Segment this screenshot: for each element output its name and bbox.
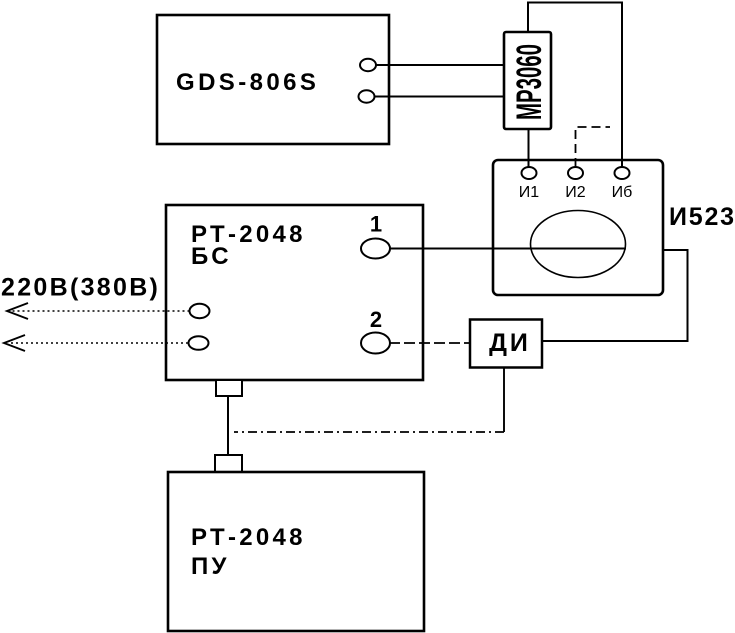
meter I523 box [493, 160, 663, 295]
current sensor DI box [470, 320, 542, 368]
svg-text:ПУ: ПУ [191, 553, 230, 580]
wire GDS terminal 1 to MP3060 [376, 64, 504, 66]
svg-text:МР3060: МР3060 [510, 44, 549, 120]
wire terminal 2 to DI [389, 342, 470, 344]
connector tab on PU top [215, 455, 242, 472]
mains wire a [12, 310, 190, 312]
wire MP3060 bottom to terminal I1 of I523 [528, 129, 530, 167]
wire I523 right side to DI [543, 250, 688, 341]
GDS-806S terminal 2 [359, 90, 375, 102]
svg-text:И1: И1 [519, 184, 540, 201]
terminal 2 of BS [361, 333, 390, 354]
svg-text:220В(380В): 220В(380В) [1, 274, 160, 302]
shunt MP3060 box [504, 32, 551, 129]
control unit PT-2048 PU box [168, 472, 424, 631]
svg-text:И2: И2 [565, 184, 586, 201]
mains terminal a [190, 304, 210, 318]
svg-text:БС: БС [191, 243, 232, 270]
terminal I1 [522, 167, 537, 179]
oscilloscope GDS-806S box [157, 15, 389, 144]
svg-text:1: 1 [370, 212, 382, 237]
power unit PT-2048 BS box [166, 205, 423, 380]
wire MP3060 top to terminal Ib of I523 [528, 3, 622, 168]
wire terminal 1 to meter dial [389, 248, 626, 250]
dashed wire terminal I2 stub [576, 127, 611, 167]
terminal Ib [615, 167, 630, 179]
wire BS to PU [227, 396, 229, 455]
wire interconnect horizontal dash-dot [234, 431, 504, 433]
terminal 1 of BS [361, 239, 390, 259]
mains terminal b [189, 336, 209, 350]
wire DI bottom to interconnect [503, 368, 505, 432]
wire GDS terminal 2 to MP3060 [375, 96, 505, 98]
svg-text:И523: И523 [669, 203, 735, 231]
arrowhead b [4, 335, 25, 351]
connector tab on BS bottom [216, 380, 242, 396]
arrowhead a [7, 303, 28, 319]
svg-text:GDS-806S: GDS-806S [176, 69, 319, 96]
svg-text:Иб: Иб [612, 184, 633, 201]
terminal I2 [568, 167, 583, 179]
svg-text:2: 2 [370, 307, 382, 332]
svg-text:РТ-2048: РТ-2048 [191, 524, 306, 551]
mains wire b [9, 342, 188, 344]
meter dial ellipse [531, 211, 626, 278]
GDS-806S terminal 1 [360, 59, 376, 71]
svg-text:ДИ: ДИ [489, 329, 531, 357]
